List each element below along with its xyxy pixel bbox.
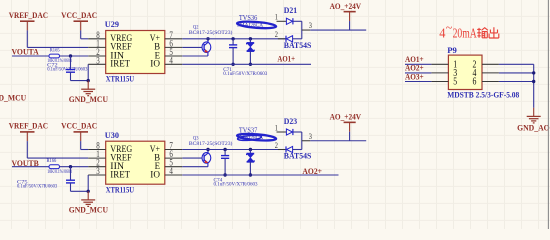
wire resistor to pin 2 — [60, 55, 89, 57]
svg-text:AO_+24V: AO_+24V — [330, 2, 362, 11]
svg-text:D23: D23 — [284, 116, 298, 126]
power port AO_+24V bar symbol — [344, 11, 356, 13]
wire VREF_DAC stem — [26, 30, 28, 47]
wire ground bus vertical — [533, 64, 535, 108]
power port AO_+24V bar symbol — [344, 121, 356, 123]
wire V+ rail pin 7 to diode — [182, 38, 286, 40]
svg-text:VCC_DAC: VCC_DAC — [61, 10, 97, 20]
wire AO3+ to connector pin 5 — [405, 81, 431, 83]
wire VCC_DAC to pin 8 — [81, 38, 89, 40]
diode D21 pin 2 — [278, 38, 286, 40]
diode D23 bottom diode — [285, 146, 287, 152]
junction at ground node — [87, 79, 90, 82]
diode D23 common vertical — [301, 132, 303, 150]
junction TVS TVS36 top — [249, 37, 252, 40]
svg-text:MDSTB 2.5/3-GF-5.08: MDSTB 2.5/3-GF-5.08 — [447, 89, 520, 99]
svg-text:1: 1 — [275, 12, 278, 22]
diode D23 pin 1 — [277, 131, 287, 133]
ground GND_AO symbol — [533, 108, 535, 117]
svg-text:3: 3 — [96, 55, 100, 65]
svg-text:3: 3 — [96, 166, 100, 176]
resistor R165 — [49, 54, 60, 58]
junction capacitor C74 top — [223, 148, 226, 151]
svg-text:IRET: IRET — [110, 169, 130, 179]
transistor Q2 — [202, 42, 211, 53]
svg-text:IO: IO — [150, 59, 160, 69]
wire top diode to common — [293, 131, 302, 133]
junction capacitor C74 bottom — [223, 173, 226, 176]
svg-text:GND_MCU: GND_MCU — [69, 205, 108, 215]
svg-text:1: 1 — [275, 122, 278, 132]
wire V+ rail pin 7 to diode — [182, 149, 286, 151]
wire capacitor C75 to ground net — [70, 183, 72, 191]
wire AO1+ to connector pin 1 — [405, 63, 431, 65]
TVS diode TVS37 — [249, 150, 251, 154]
op-amp U30 right pins 7 6 5 4 — [165, 149, 183, 151]
capacitor C75 — [66, 179, 75, 181]
svg-text:AO3+: AO3+ — [405, 71, 424, 81]
diode D21 bottom diode — [285, 36, 287, 42]
svg-text:VOUTA: VOUTA — [12, 46, 40, 56]
wire connector pin 2 to ground bus — [499, 63, 534, 65]
transistor Q2 emitter arrow — [205, 49, 209, 52]
wire VCC_DAC to pin 8 — [81, 149, 89, 151]
svg-text:3: 3 — [309, 20, 312, 30]
wire pin 3 to +24V — [310, 140, 366, 142]
svg-text:2: 2 — [275, 140, 278, 150]
junction at capacitor C72 tap — [69, 54, 72, 57]
svg-text:R165: R165 — [50, 49, 60, 54]
svg-text:3: 3 — [309, 131, 312, 141]
junction collector on V+ rail — [206, 148, 209, 151]
junction TVS TVS37 top — [249, 148, 252, 151]
diode D21 pin 3 — [302, 29, 311, 31]
wire pin 3 IRET down — [87, 175, 89, 191]
svg-text:U30: U30 — [105, 130, 120, 140]
wire pin 3 to +24V — [310, 29, 366, 31]
svg-text:6: 6 — [473, 77, 477, 88]
svg-text:0.1uF/50V/X7R/0603: 0.1uF/50V/X7R/0603 — [223, 72, 267, 77]
wire AO_+24V stem — [349, 132, 351, 141]
connector P9 right pins 2 4 6 — [482, 63, 499, 65]
diode D23 top diode — [286, 129, 292, 135]
junction ground bus row 2 — [532, 71, 535, 74]
junction TVS TVS37 bottom — [249, 173, 252, 176]
wire down to capacitor C75 — [70, 167, 72, 180]
wire AO_+24V stem — [349, 21, 351, 30]
capacitor C72 — [66, 69, 75, 71]
svg-text:4: 4 — [439, 27, 445, 42]
wire VREF_DAC to pin 1 — [27, 157, 88, 159]
svg-text:D21: D21 — [284, 5, 297, 15]
op-amp U29 right pins 7 6 5 4 — [165, 38, 183, 40]
junction capacitor C71 top — [231, 37, 234, 40]
wire connector pin 4 to ground bus — [499, 72, 534, 74]
svg-text:XTR115U: XTR115U — [106, 184, 135, 194]
svg-text:VCC_DAC: VCC_DAC — [61, 121, 97, 131]
junction at capacitor C75 tap — [69, 165, 72, 168]
TVS diode TVS36 — [249, 39, 251, 43]
wire IO output net AO2+ — [182, 174, 338, 176]
svg-text:GND_MCU: GND_MCU — [0, 93, 26, 103]
svg-text:20mA: 20mA — [453, 27, 478, 42]
svg-text:XTR115U: XTR115U — [106, 74, 135, 84]
svg-text:BAT54S: BAT54S — [284, 40, 312, 50]
svg-text:5: 5 — [453, 77, 457, 88]
wire VREF_DAC stem — [26, 141, 28, 158]
svg-text:4: 4 — [169, 55, 173, 65]
ground GND_MCU symbol — [87, 191, 89, 200]
capacitor C71 — [232, 39, 234, 45]
svg-text:AO2+: AO2+ — [302, 166, 322, 176]
power port VREF_DAC bar symbol — [20, 131, 35, 133]
wire IO output net AO1+ — [182, 63, 311, 65]
connector P9 left pins 1 3 5 — [431, 63, 448, 65]
wire connector pin 6 to ground bus — [499, 81, 534, 83]
wire VOUTA to resistor — [12, 55, 49, 57]
svg-text:AO1+: AO1+ — [277, 53, 295, 63]
power port VREF_DAC bar symbol — [20, 20, 35, 22]
wire bottom diode to common — [293, 149, 302, 151]
svg-text:4: 4 — [169, 166, 173, 176]
wire resistor to pin 2 — [60, 166, 89, 168]
connector P9 body — [448, 55, 482, 89]
wire pin 6 to base — [182, 46, 202, 48]
transistor Q3 — [202, 153, 211, 164]
diode D23 pin 2 — [278, 149, 286, 151]
sheet border line at right — [547, 0, 549, 229]
wire pin 5 to emitter — [182, 55, 208, 57]
svg-text:IRET: IRET — [110, 59, 130, 69]
wire VREF_DAC to pin 1 — [27, 46, 88, 48]
wire top diode to common — [293, 20, 302, 22]
annotation chinese glyph chu — [489, 27, 499, 38]
svg-text:VREF_DAC: VREF_DAC — [9, 10, 48, 20]
junction at ground node — [87, 190, 90, 193]
op-amp U29 body — [106, 31, 165, 74]
wire capacitor C72 to ground net — [70, 72, 72, 80]
diode D21 pin 1 — [277, 20, 287, 22]
junction ground bus row 3 — [532, 80, 535, 83]
ground GND_MCU symbol — [87, 81, 89, 90]
diode D21 top diode — [286, 18, 292, 24]
transistor Q3 emitter arrow — [205, 160, 209, 163]
svg-text:U29: U29 — [105, 19, 120, 29]
svg-text:BAT54S: BAT54S — [284, 151, 312, 161]
wire down to capacitor C72 — [70, 56, 72, 69]
svg-text:VREF_DAC: VREF_DAC — [9, 121, 48, 131]
wire pin 6 to base — [182, 157, 202, 159]
junction collector on V+ rail — [206, 37, 209, 40]
svg-text:Q2: Q2 — [193, 26, 199, 31]
wire pin 3 IRET down — [87, 64, 89, 80]
svg-text:~: ~ — [446, 19, 453, 34]
op-amp U30 body — [106, 141, 165, 184]
svg-text:GND_MCU: GND_MCU — [69, 94, 108, 104]
wire AO2+ to connector pin 3 — [405, 72, 431, 74]
svg-text:0.1uF/50V/X7R/0603: 0.1uF/50V/X7R/0603 — [214, 183, 258, 188]
svg-text:P9: P9 — [447, 45, 457, 55]
power port VCC_DAC bar symbol — [74, 20, 89, 22]
junction capacitor C71 bottom — [231, 63, 234, 66]
svg-text:AO_+24V: AO_+24V — [330, 112, 362, 121]
svg-text:2: 2 — [275, 29, 278, 39]
diode D23 pin 3 — [302, 140, 311, 142]
svg-text:0.1uF/50V/X7R/0603: 0.1uF/50V/X7R/0603 — [17, 185, 58, 190]
svg-text:10K/0.1%/0603: 10K/0.1%/0603 — [47, 170, 72, 175]
annotation chinese glyph shu — [477, 28, 488, 38]
junction TVS TVS36 bottom — [249, 63, 252, 66]
svg-text:BC817-25(SOT23): BC817-25(SOT23) — [189, 31, 233, 36]
svg-text:IO: IO — [150, 169, 160, 179]
op-amp U29 left pins 8 1 2 3 — [88, 38, 106, 40]
wire VCC_DAC stem — [80, 141, 82, 149]
diode D21 common vertical — [301, 21, 303, 39]
svg-text:Q3: Q3 — [193, 136, 199, 141]
wire bottom diode to common — [293, 38, 302, 40]
wire pin 5 to emitter — [182, 166, 208, 168]
wire VOUTB to resistor — [12, 166, 49, 168]
op-amp U30 left pins 8 1 2 3 — [88, 149, 106, 151]
power port VCC_DAC bar symbol — [74, 131, 89, 133]
svg-text:R166: R166 — [47, 159, 57, 164]
resistor R166 — [49, 165, 60, 169]
wire VCC_DAC stem — [80, 30, 82, 38]
capacitor C74 — [224, 150, 226, 156]
svg-text:GND_AO: GND_AO — [517, 122, 550, 132]
svg-text:BC817-25(SOT23): BC817-25(SOT23) — [189, 142, 233, 147]
